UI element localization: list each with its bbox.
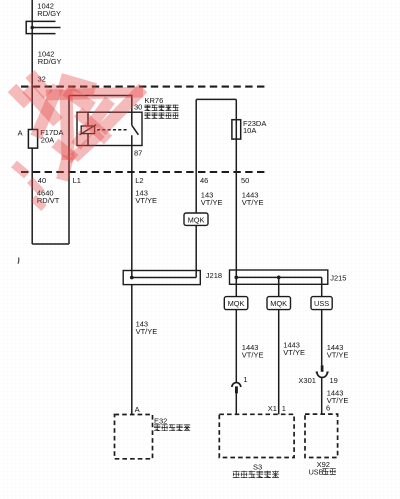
svg-text:E32: E32	[154, 416, 167, 425]
watermark red stamp	[12, 74, 143, 208]
wire 1042 RD/GY from top	[31, 0, 33, 130]
label wire 4640 RD/VT	[37, 189, 60, 206]
label S3	[253, 463, 262, 472]
pin 30 label	[134, 102, 142, 111]
relay KR76 chinese label line2	[145, 112, 179, 118]
label wire 143 VT/YE (to E32)	[136, 320, 158, 337]
svg-text:1: 1	[243, 375, 247, 384]
inline connector arc (branch 1)	[232, 383, 241, 387]
svg-text:USS: USS	[314, 299, 329, 308]
label S3 chinese (transmission shift lever)	[233, 471, 279, 478]
relay feed wire (L1 to pin 30)	[69, 95, 132, 97]
pin 87 label	[134, 148, 142, 157]
wire 1443 branch 1 (J215 down)	[235, 277, 237, 296]
svg-text:MQK: MQK	[270, 299, 287, 308]
wire 1443 branch 2 (J215 down)	[278, 277, 280, 296]
pin L1 label	[73, 176, 81, 185]
label wire 1443 VT/YE (branch 1)	[242, 343, 264, 360]
svg-text:VT/YE: VT/YE	[242, 198, 264, 207]
wire from F23DA to pin 50	[235, 99, 237, 277]
svg-text:VT/YE: VT/YE	[136, 327, 158, 336]
relay KR76 pin 30 stub	[131, 95, 133, 126]
fuse block lower dashed boundary	[21, 171, 266, 173]
label wire 1443 VT/YE (branch 2)	[283, 341, 305, 358]
label wire 1443 VT/YE (branch 3)	[327, 343, 349, 360]
connector X1 label	[268, 404, 277, 413]
pin L2 label	[135, 176, 143, 185]
inline connector X301 male bar	[321, 365, 324, 372]
terminal 1 label (branch 2)	[282, 404, 286, 413]
svg-text:10A: 10A	[243, 126, 256, 135]
svg-text:USB: USB	[309, 467, 324, 476]
wire 46 below MQK to J218	[195, 225, 197, 277]
junction dot J218	[130, 276, 134, 280]
label J215	[330, 273, 346, 282]
relay KR76 body box	[77, 112, 142, 145]
wire branch1 to S3	[235, 393, 237, 414]
svg-text:L2: L2	[135, 176, 143, 185]
label J218	[206, 271, 222, 280]
splice pack J215 bus bar	[236, 276, 321, 278]
fuse F23DA value label	[243, 119, 266, 135]
fuse F23DA 10A body	[232, 120, 241, 139]
label E32	[154, 416, 167, 425]
splice label MQK (branch 1)	[224, 297, 248, 310]
label X92	[317, 460, 330, 469]
svg-text:VT/YE: VT/YE	[327, 351, 349, 360]
relay coil slash	[80, 125, 97, 135]
label X301	[298, 376, 316, 385]
inline connector X301 female cup	[316, 372, 329, 377]
wire 143 VT/YE J218 to E32	[131, 285, 133, 415]
terminal A label (F17DA)	[18, 128, 23, 137]
terminal A label (E32)	[135, 405, 140, 414]
svg-text:RD/GY: RD/GY	[38, 57, 62, 66]
svg-text:40: 40	[38, 176, 46, 185]
svg-text:46: 46	[200, 176, 208, 185]
svg-text:MQK: MQK	[188, 215, 205, 224]
relay linkage dashed line	[97, 129, 128, 131]
svg-text:S3: S3	[253, 463, 262, 472]
pin 32 label	[38, 75, 46, 84]
svg-text:X1: X1	[268, 404, 277, 413]
label wire 143 VT/YE (pin 46)	[201, 190, 223, 207]
wire 46 vertical (feed leg)	[195, 99, 197, 213]
svg-text:VT/YE: VT/YE	[135, 196, 157, 205]
svg-text:J218: J218	[206, 271, 222, 280]
svg-text:VT/YE: VT/YE	[283, 348, 305, 357]
pin 50 label	[241, 176, 249, 185]
relay coil stub lower	[87, 134, 89, 146]
pin 40 label	[38, 176, 46, 185]
component X92 dashed box	[305, 414, 338, 457]
svg-text:RD/GY: RD/GY	[37, 9, 61, 18]
stray mark j	[17, 258, 20, 264]
svg-text:20A: 20A	[41, 136, 54, 145]
svg-text:X301: X301	[298, 376, 316, 385]
wire F23DA feed horizontal	[196, 98, 236, 100]
terminal 19 label	[330, 376, 338, 385]
relay coil stub upper	[87, 112, 89, 126]
svg-text:KR76: KR76	[145, 96, 164, 105]
junction dot J215 mid	[277, 276, 281, 280]
splice label MQK (branch 2)	[267, 297, 291, 310]
splice label MQK (wire 46)	[184, 213, 208, 225]
label wire 143 VT/YE (below L2)	[135, 189, 157, 206]
wire 4640 RD/VT loop bottom	[32, 243, 69, 245]
fuse block upper dashed boundary	[21, 86, 266, 88]
relay pin 87 wire to pin L2	[131, 135, 133, 277]
wire branch1 MQK to connector	[235, 310, 237, 382]
wire X301 to X92	[321, 378, 323, 415]
splice pack J218 body	[123, 271, 200, 285]
fuse F17DA value label	[40, 128, 63, 144]
svg-text:VT/YE: VT/YE	[201, 198, 223, 207]
splice pack J215 body	[230, 270, 328, 284]
svg-text:A: A	[18, 128, 23, 137]
svg-text:MQK: MQK	[228, 299, 245, 308]
fuse F17DA 20A body	[28, 130, 37, 149]
component E32 dashed box	[115, 415, 153, 459]
wire 1443 branch 3 (J215 down)	[321, 277, 323, 296]
terminal 6 label	[326, 403, 330, 412]
relay KR76 name label	[145, 96, 164, 105]
label X92 chinese (USB socket)	[309, 467, 336, 476]
svg-text:A: A	[135, 405, 140, 414]
pin 46 label	[200, 176, 208, 185]
label wire 1042 RD/GY (top)	[37, 1, 61, 18]
splice S-bracket on wire 1042	[26, 21, 60, 33]
terminal 1 label (branch 1)	[243, 375, 247, 384]
svg-text:6: 6	[326, 403, 330, 412]
relay coil box	[81, 126, 94, 134]
wire 4640 RD/VT fuse to pin 40	[31, 148, 33, 244]
splice pack J218 bus bar	[132, 277, 196, 279]
junction dot J215 left	[234, 276, 238, 280]
svg-text:1: 1	[282, 404, 286, 413]
svg-text:50: 50	[241, 176, 249, 185]
splice label USS (branch 3)	[311, 297, 332, 310]
wire 4640 RD/VT up leg to pin L1	[68, 96, 70, 245]
svg-text:L1: L1	[73, 176, 81, 185]
svg-text:VT/YE: VT/YE	[242, 351, 264, 360]
relay KR76 chinese label line1	[145, 105, 179, 111]
component S3 dashed box	[219, 414, 294, 457]
wire branch2 to S3 pin X1-1	[278, 310, 280, 415]
relay switch blade	[132, 125, 139, 135]
wire branch3 USS to X301	[321, 310, 323, 366]
label wire 1443 VT/YE (pin 50)	[242, 190, 264, 207]
label E32 chinese (cigarette lighter socket)	[154, 424, 190, 430]
svg-text:J215: J215	[330, 273, 346, 282]
svg-text:87: 87	[134, 148, 142, 157]
male terminal bar (branch 1)	[235, 386, 238, 393]
label wire 1443 VT/YE (below X301)	[327, 388, 349, 405]
svg-text:19: 19	[330, 376, 338, 385]
label wire 1042 RD/GY (below splice)	[38, 50, 62, 67]
